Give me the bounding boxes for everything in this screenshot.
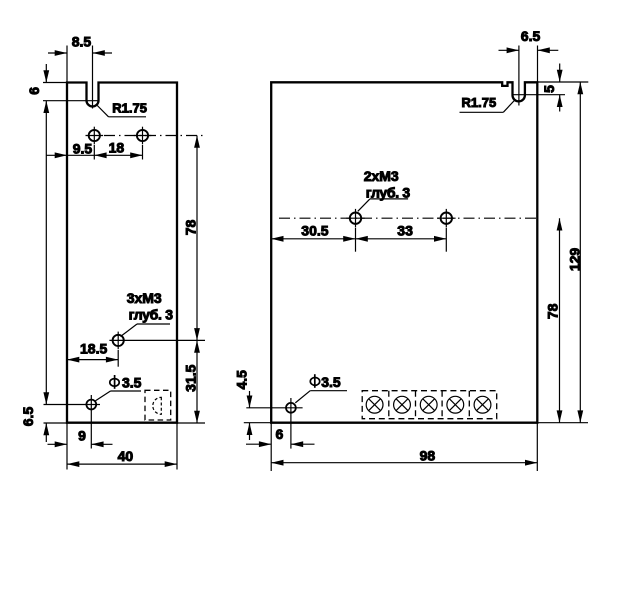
terminal dividers	[388, 391, 390, 419]
ext left/right edges down (40)	[66, 423, 68, 470]
D-shape inside dashed box	[153, 397, 162, 414]
dim 18.5	[67, 359, 118, 361]
svg-text:глуб. 3: глуб. 3	[366, 185, 411, 201]
hole M3 middle (3xM3)	[113, 335, 124, 346]
ext bottom edge left (4.5)	[244, 422, 271, 424]
dim 98	[271, 462, 537, 464]
dim line 30.5/33	[271, 238, 446, 240]
svg-text:6: 6	[276, 426, 284, 442]
dim 6 bottom right view	[246, 443, 271, 445]
dim 6 upper arrow	[45, 64, 47, 83]
ext top edge left (6)	[43, 82, 67, 84]
dim 8.5 line-arrows	[48, 52, 67, 54]
label phi3.5 right + leader	[295, 391, 310, 403]
terminal screws: circles with X	[366, 396, 491, 413]
dim 6 lower arrow with long tail	[45, 101, 47, 405]
svg-text:3.5: 3.5	[321, 374, 341, 390]
ext bottom edge right (31.5)	[177, 422, 205, 424]
leader 3xM3	[121, 324, 138, 337]
hole ext verticals (30.5/33)	[355, 228, 357, 252]
dim 9	[48, 443, 68, 445]
svg-text:R1.75: R1.75	[462, 95, 497, 110]
dim 31.5 vertical	[196, 340, 198, 423]
ext line notch centerline (8.5)	[92, 46, 94, 109]
dim 6.5 arrows	[43, 392, 49, 404]
ext bottom edge left (6.5)	[44, 422, 68, 424]
ext bottom edge right side (78/129)	[537, 422, 588, 424]
leader 2xM3	[358, 199, 370, 211]
ext vertical below 3xM3 hole	[117, 350, 119, 367]
svg-text:78: 78	[183, 220, 199, 236]
svg-text:8.5: 8.5	[72, 34, 92, 50]
dim 40	[67, 463, 177, 465]
svg-text:129: 129	[567, 248, 583, 272]
svg-text:33: 33	[397, 223, 413, 239]
leader R1.75 right	[460, 111, 504, 113]
hole M3 right view right	[441, 213, 452, 224]
svg-text:глуб. 3: глуб. 3	[129, 307, 174, 323]
svg-text:9: 9	[78, 427, 86, 443]
hole M3 top-left	[89, 130, 100, 141]
svg-text:6: 6	[26, 87, 42, 95]
svg-text:9.5: 9.5	[73, 140, 93, 156]
ext line left edge up (8.5)	[66, 46, 68, 83]
right plate outline with step and top slot	[271, 82, 537, 422]
svg-text:18.5: 18.5	[80, 340, 107, 356]
svg-text:31.5: 31.5	[183, 364, 199, 391]
ext left/right edges down (98)	[270, 423, 272, 471]
dim 4.5 arrows	[249, 391, 251, 408]
svg-text:3xM3: 3xM3	[127, 290, 162, 306]
svg-text:5: 5	[541, 85, 557, 93]
svg-text:30.5: 30.5	[301, 223, 328, 239]
svg-text:18: 18	[109, 140, 125, 156]
terminal block dashed rect	[362, 391, 497, 419]
svg-text:6.5: 6.5	[521, 28, 541, 44]
leader R1.75 left	[97, 106, 108, 117]
svg-text:2xM3: 2xM3	[364, 168, 399, 184]
ext top edge right (5,129)	[538, 81, 589, 83]
centerline dash-dot right view	[279, 217, 537, 219]
hole phi3.5 right	[286, 403, 296, 413]
dim line 9.5/18	[46, 154, 142, 156]
svg-text:6.5: 6.5	[20, 407, 36, 427]
left plate outline with top notch	[67, 83, 177, 423]
dim 129 vertical	[579, 82, 581, 423]
svg-text:98: 98	[420, 448, 436, 464]
hole ext verticals for 9.5/18	[93, 145, 95, 160]
dim 6.5 right view	[499, 49, 519, 51]
ext slot bottom level (5)	[512, 94, 565, 96]
ext line through 3xM3 hole to right	[127, 339, 205, 341]
dashed cutout box left view	[145, 390, 171, 420]
svg-text:4.5: 4.5	[234, 370, 250, 390]
svg-text:R1.75: R1.75	[112, 101, 147, 116]
ext slot centerline up (6.5)	[518, 46, 520, 106]
hole M3 top-right	[137, 130, 148, 141]
centerline dash-dot through top holes	[104, 135, 205, 137]
svg-text:78: 78	[545, 303, 561, 319]
dim 78 right vertical	[559, 218, 561, 423]
svg-text:3.5: 3.5	[122, 375, 142, 391]
label phi3.5 left + leader	[96, 391, 111, 401]
svg-text:40: 40	[118, 448, 134, 464]
ext right edge up (6.5)	[537, 46, 539, 83]
ext notch bottom level (6)	[43, 100, 99, 102]
hole M3 right view left (2xM3)	[350, 213, 361, 224]
dim 78 left view vertical	[196, 136, 198, 341]
hole phi3.5 left	[86, 400, 96, 410]
dim 5 arrows	[559, 64, 561, 83]
